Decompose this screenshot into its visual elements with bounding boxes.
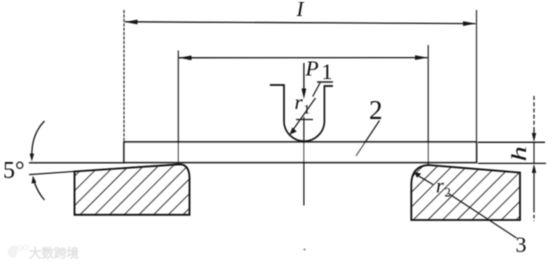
force arrow P on centerline bbox=[302, 63, 307, 99]
svg-text:h: h bbox=[507, 146, 530, 161]
watermark text bbox=[29, 246, 80, 261]
svg-text:I: I bbox=[296, 0, 305, 21]
svg-text:r: r bbox=[436, 176, 444, 198]
svg-text:r: r bbox=[295, 90, 304, 114]
watermark logo bbox=[8, 245, 28, 257]
span extension lines over beam bbox=[178, 142, 428, 165]
angle label 5 deg bbox=[3, 158, 25, 184]
svg-text:2: 2 bbox=[445, 186, 451, 200]
dimension line l with arrows bbox=[125, 20, 477, 26]
label h (rotated) bbox=[507, 146, 530, 161]
svg-text:1: 1 bbox=[322, 59, 333, 84]
svg-text:3: 3 bbox=[516, 232, 527, 257]
specimen beam 2 bbox=[124, 142, 477, 163]
h dimension line with arrows bbox=[532, 96, 536, 221]
right support bbox=[411, 165, 520, 220]
centerline below nose bbox=[303, 117, 305, 206]
leader r2 with arrow into rounded corner bbox=[414, 172, 516, 238]
stray centerline dot bbox=[304, 249, 306, 251]
left support bbox=[75, 164, 190, 215]
label 3 bbox=[516, 232, 527, 257]
label 1 with underline and leader bbox=[313, 59, 333, 97]
svg-text:大数跨境: 大数跨境 bbox=[29, 246, 80, 261]
label 2 with leader bbox=[356, 95, 383, 156]
loading nose 1 (U shape) bbox=[270, 85, 333, 141]
angle arc upper with arrow bbox=[30, 121, 45, 161]
extension line right of span dimension bbox=[427, 45, 429, 165]
label l bbox=[296, 0, 305, 21]
svg-text:P: P bbox=[305, 57, 319, 81]
angle arc lower with arrow bbox=[32, 176, 45, 200]
horizontal reference line (beam bottom extended left) bbox=[29, 162, 125, 164]
extension line left of dimension l bbox=[123, 10, 125, 141]
extension line right of dimension l bbox=[476, 10, 478, 141]
extension line left of span dimension bbox=[177, 51, 179, 164]
label P bbox=[305, 57, 319, 81]
svg-text:2: 2 bbox=[369, 95, 383, 125]
label r2 bbox=[436, 176, 451, 200]
5 degree tangent line bbox=[29, 164, 178, 174]
span dimension line with arrows bbox=[179, 55, 428, 60]
label r1 with tick and arrow leader to nose radius bbox=[290, 90, 316, 135]
svg-text:5°: 5° bbox=[3, 158, 25, 184]
h dimension extension lines bbox=[478, 142, 546, 163]
